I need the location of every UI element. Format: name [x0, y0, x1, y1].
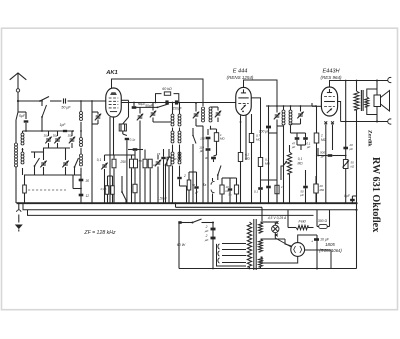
tube E443H pins	[324, 121, 327, 124]
transformer core	[360, 90, 362, 111]
svg-text:(RENS 1254): (RENS 1254)	[227, 75, 254, 80]
capacitor	[133, 148, 138, 151]
capacitor	[303, 137, 308, 140]
ground symbol	[17, 210, 21, 212]
variable capacitor IF1 right	[216, 112, 221, 114]
wire	[91, 101, 93, 203]
variable capacitor C5	[63, 162, 68, 164]
resistor 300 ohm	[319, 224, 328, 228]
capacitor 5pF	[24, 120, 29, 122]
capacitor 2uF	[177, 177, 181, 179]
coupling cap 20uF	[343, 147, 348, 150]
capacitor	[228, 188, 232, 190]
svg-text:150pF: 150pF	[172, 107, 182, 111]
svg-text:AK1: AK1	[105, 70, 118, 76]
svg-text:300 Ω: 300 Ω	[318, 219, 328, 223]
coil L2b	[21, 152, 24, 155]
wire IF1 to grid E444	[211, 126, 217, 129]
svg-text:E443H: E443H	[322, 69, 340, 75]
svg-text:MΩ: MΩ	[256, 138, 261, 142]
switch S5	[121, 191, 123, 193]
svg-text:0,1: 0,1	[254, 190, 259, 194]
svg-text:MΩ: MΩ	[220, 137, 225, 141]
svg-text:30: 30	[205, 156, 209, 160]
wire lamp top	[274, 222, 276, 225]
svg-text:Ta: Ta	[203, 183, 207, 187]
mains switch wire	[178, 221, 181, 224]
svg-text:MΩ: MΩ	[320, 188, 325, 192]
svg-text:4,5 V 0,29 A: 4,5 V 0,29 A	[268, 216, 287, 220]
transformer secondary heater top	[259, 222, 263, 233]
svg-text:5µ: 5µ	[228, 193, 232, 197]
wire pad junction	[72, 175, 74, 189]
svg-text:µF: µF	[307, 145, 311, 149]
resistor 60k loop	[156, 94, 162, 103]
svg-text:E 444: E 444	[233, 69, 248, 75]
rectifier tube 1805	[291, 243, 305, 257]
capacitor 50pF	[165, 100, 168, 104]
transformer secondary heater 2	[259, 257, 263, 267]
svg-text:50µF: 50µF	[138, 102, 146, 106]
transformer primary	[247, 222, 251, 267]
variable capacitor C1	[46, 138, 51, 140]
coil L1 antenna	[15, 143, 18, 146]
wire	[68, 100, 107, 102]
capacitor 500uF	[328, 154, 333, 157]
wire row y131	[23, 130, 74, 132]
svg-text:MΩ: MΩ	[297, 162, 303, 166]
hook connector top	[388, 77, 392, 82]
capacitor mains 1	[211, 228, 216, 231]
resistor 0,2M	[258, 158, 262, 167]
transformer core	[253, 219, 255, 270]
bus 2	[23, 203, 357, 210]
resistor Feld	[296, 225, 308, 229]
wire AK1 grid row	[106, 102, 122, 104]
capacitor row	[258, 187, 263, 190]
capacitor 50uF blob	[132, 106, 137, 109]
svg-text:µF: µF	[205, 229, 209, 233]
svg-text:0,1: 0,1	[298, 157, 303, 161]
coupling line	[345, 81, 347, 204]
svg-text:Feld: Feld	[299, 220, 307, 224]
svg-text:12: 12	[86, 194, 90, 198]
wire AK1 anode	[112, 79, 204, 106]
voltage selector	[218, 244, 220, 249]
svg-text:MΩ: MΩ	[265, 162, 270, 166]
wire speaker plus	[376, 81, 378, 90]
wire rect anode top	[298, 235, 317, 243]
svg-text:µF: µF	[350, 147, 354, 151]
variable capacitor IF2 right	[298, 113, 303, 115]
speaker coupling loop	[367, 89, 377, 97]
tube E443H	[321, 87, 337, 116]
grid pot 50k	[343, 160, 348, 169]
svg-text:(RES 964): (RES 964)	[320, 75, 342, 80]
capacitor 12uF pad	[79, 194, 84, 197]
resistor 1M right	[314, 133, 319, 143]
resistor 1M	[214, 133, 218, 142]
wire IF2 row	[266, 105, 316, 107]
svg-text:50 µF: 50 µF	[61, 106, 71, 110]
wire rect bottom	[261, 256, 298, 263]
coil L2a	[21, 133, 24, 136]
capacitor 150uF	[206, 137, 211, 140]
switch S4	[134, 106, 158, 108]
svg-text:0,1µ: 0,1µ	[130, 138, 136, 142]
coil L3 top	[80, 112, 83, 115]
resistor	[187, 180, 191, 190]
svg-text:Zerdik: Zerdik	[367, 130, 373, 147]
svg-text:µF: µF	[195, 191, 199, 195]
mains vertical	[212, 222, 214, 269]
heater wire	[176, 206, 263, 208]
wire top input row	[18, 100, 40, 102]
switch wave band	[41, 101, 43, 106]
wire E443H anode	[329, 80, 331, 87]
capacitor 110pF	[206, 148, 211, 151]
switch	[217, 174, 219, 176]
svg-text:pF: pF	[199, 149, 204, 153]
tube E444	[236, 87, 252, 115]
wire pot tap	[281, 166, 283, 180]
volume pot	[287, 152, 291, 174]
tube E444 cathode leads	[240, 115, 242, 203]
svg-text:15: 15	[157, 152, 161, 156]
wire antenna down	[17, 101, 19, 112]
coil osc pair 1	[171, 114, 174, 117]
svg-text:1805: 1805	[325, 242, 335, 247]
wire E443H grid right	[338, 102, 341, 122]
tube AK1	[106, 88, 122, 117]
antenna	[10, 73, 27, 80]
svg-text:µF: µF	[205, 238, 209, 242]
capacitor 1pF	[63, 130, 67, 132]
coil osc pair 2	[171, 131, 174, 134]
IF transformer 1	[202, 107, 205, 110]
variable capacitor IF1 left	[194, 113, 199, 115]
svg-text:µF: µF	[300, 193, 304, 197]
wire row y175	[24, 174, 81, 176]
resistor	[167, 157, 171, 166]
bus junction dots	[18, 202, 20, 204]
resistor	[234, 185, 238, 194]
wire output top row	[330, 80, 388, 82]
svg-text:+: +	[311, 240, 313, 244]
tube AK1 cathode leads	[109, 117, 111, 203]
capacitor 50pF antenna	[63, 98, 65, 103]
switch S3	[74, 166, 76, 168]
resistor E444 right	[249, 134, 253, 143]
wire E444 anode	[244, 80, 278, 107]
speaker driver	[374, 95, 381, 107]
variable capacitor C3	[70, 138, 75, 140]
resistor	[220, 185, 224, 194]
capacitor	[303, 186, 308, 189]
wire E444 screen right	[251, 98, 260, 158]
coil osc pair 3	[171, 152, 174, 155]
ground bus main	[17, 202, 357, 204]
variable capacitor pad	[138, 115, 143, 117]
capacitor	[266, 186, 271, 189]
svg-text:16 µF: 16 µF	[320, 238, 330, 242]
svg-text:60 kΩ: 60 kΩ	[162, 87, 172, 91]
switch osc2	[192, 128, 194, 135]
variable capacitor C4	[41, 162, 46, 164]
bus 3	[28, 210, 314, 216]
output secondary	[365, 97, 369, 107]
capacitor 30uF	[211, 157, 216, 160]
hook connector bottom	[388, 119, 392, 124]
pilot lamp	[272, 225, 279, 232]
capacitor 8uF	[350, 199, 355, 201]
resistor pair lower	[105, 186, 109, 195]
svg-text:0,1: 0,1	[97, 158, 102, 162]
svg-text:5µF: 5µF	[19, 114, 26, 118]
switch S1 antenna	[39, 100, 41, 102]
svg-text:0,05: 0,05	[101, 187, 107, 191]
B+ rail	[356, 110, 358, 269]
svg-text:ZF = 128 kHz: ZF = 128 kHz	[83, 230, 116, 236]
capacitor 100uF	[266, 126, 271, 129]
svg-text:30: 30	[86, 179, 90, 183]
wire 5pF branch	[18, 111, 26, 113]
svg-text:RW 631 Oktoflex: RW 631 Oktoflex	[370, 157, 381, 233]
capacitor 16uF	[314, 238, 319, 241]
resistor	[148, 159, 152, 168]
svg-text:1,5mF: 1,5mF	[157, 197, 168, 201]
svg-text:60 W: 60 W	[177, 243, 186, 247]
speaker cone	[381, 91, 390, 112]
svg-text:50: 50	[139, 159, 143, 163]
resistor	[143, 159, 147, 168]
wire speaker bottom	[341, 121, 388, 123]
capacitor 20uF pad	[79, 179, 84, 182]
transformer secondary HV	[259, 239, 263, 252]
svg-text:1: 1	[321, 134, 323, 138]
svg-text:2: 2	[183, 174, 186, 178]
variable capacitor	[102, 164, 107, 166]
svg-text:µF: µF	[292, 145, 296, 149]
resistor	[134, 159, 138, 168]
variable capacitor AK1 grid	[96, 115, 101, 117]
capacitor	[161, 157, 165, 159]
svg-text:250: 250	[120, 160, 127, 164]
svg-text:MΩ: MΩ	[245, 157, 250, 161]
coil L3a	[80, 138, 83, 141]
component 110	[121, 99, 128, 101]
variable capacitor	[156, 161, 161, 163]
coil L3b	[80, 154, 83, 157]
resistor	[275, 185, 279, 194]
resistor	[314, 184, 318, 193]
resistor E444 cathode	[238, 153, 242, 162]
capacitor mains 2	[211, 237, 216, 240]
svg-text:1pF: 1pF	[60, 123, 67, 127]
svg-text:150: 150	[200, 137, 205, 141]
switch S2	[34, 165, 36, 167]
wire row y148	[43, 147, 70, 149]
wire lamp to rect	[275, 233, 291, 247]
bottom wire	[179, 268, 356, 270]
switch	[165, 164, 167, 166]
capacitor	[194, 186, 198, 188]
variable capacitor osc	[151, 112, 156, 114]
variable capacitor C2	[55, 138, 60, 140]
gang capacitor link	[23, 185, 27, 193]
resistor 250	[112, 159, 116, 168]
wire	[50, 100, 62, 102]
variable capacitor IF2 left	[275, 114, 280, 116]
wire rect right	[305, 250, 331, 269]
IF transformer 2	[282, 110, 285, 113]
field coil	[354, 91, 359, 110]
capacitor diode load	[295, 137, 300, 140]
resistor	[130, 159, 134, 168]
